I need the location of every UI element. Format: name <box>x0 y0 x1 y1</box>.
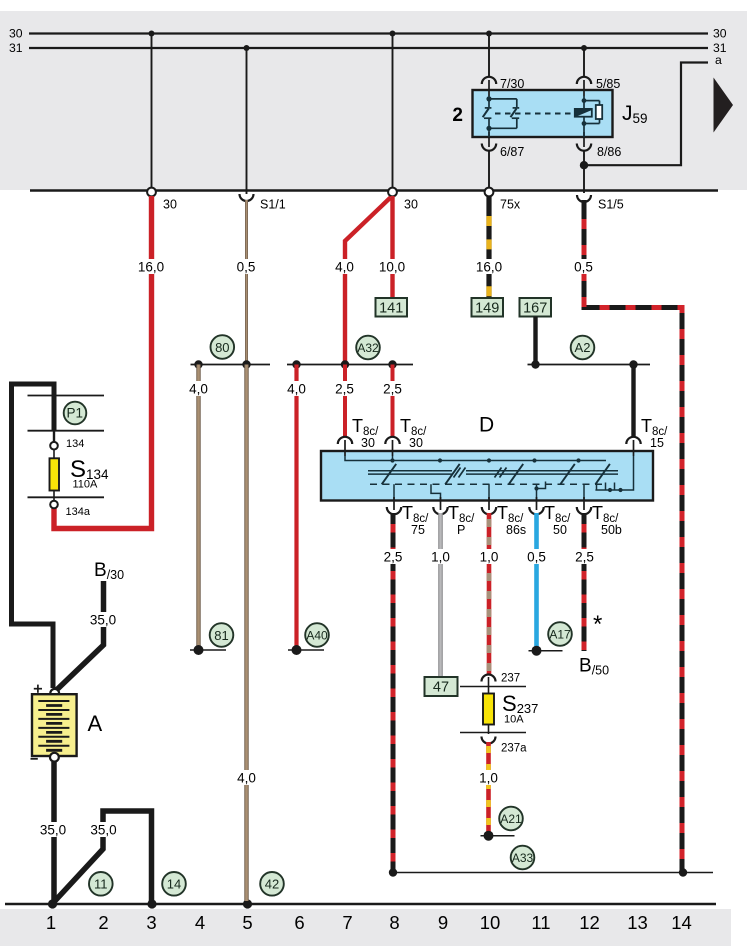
P1 bracket line upper <box>28 395 105 397</box>
svg-text:P: P <box>457 523 465 537</box>
terminal 134 <box>50 442 58 450</box>
wire net a <box>584 63 708 166</box>
svg-text:A17: A17 <box>549 628 571 642</box>
value label 1,0 (P wire) <box>429 549 452 564</box>
ground point 3 <box>147 899 156 908</box>
svg-text:4,0: 4,0 <box>237 771 256 786</box>
wire 8/86 down to terminal S1/5 <box>583 151 585 194</box>
top gray band <box>0 11 747 190</box>
svg-text:47: 47 <box>433 680 449 696</box>
fuse S237 <box>483 694 494 725</box>
wire stub column 5 to bus 31 <box>246 48 248 194</box>
svg-text:16,0: 16,0 <box>476 260 502 275</box>
pin T8c/30 connector (left) <box>338 437 352 444</box>
bus A33 <box>392 872 713 874</box>
svg-text:*: * <box>593 611 602 638</box>
svg-text:1,0: 1,0 <box>431 550 450 565</box>
wire stub column 8 to bus 30 <box>392 34 394 189</box>
svg-text:1: 1 <box>46 912 56 933</box>
value label 4,0 (A32 feed) <box>333 259 356 274</box>
wire black 35,0 ground 1 to ground 3 <box>53 811 152 903</box>
svg-text:11: 11 <box>94 876 108 891</box>
svg-text:2: 2 <box>452 105 463 126</box>
label 11 <box>89 872 113 896</box>
value label 2,5 (right) <box>381 381 404 396</box>
svg-text:31: 31 <box>9 41 23 55</box>
direction arrow <box>714 78 734 133</box>
pin 8/86 connector <box>577 144 591 151</box>
wire red 2,5 bus A32 to T8c/30 (left) <box>343 365 347 438</box>
terminal 134a <box>50 501 58 509</box>
svg-text:2,5: 2,5 <box>384 550 403 565</box>
label A40 <box>305 623 329 647</box>
wire blue 0,5 T8c/50 to connector A17 <box>534 513 539 649</box>
svg-text:P1: P1 <box>67 406 84 421</box>
svg-text:75x: 75x <box>500 198 521 212</box>
svg-text:0,5: 0,5 <box>527 550 546 565</box>
svg-text:16,0: 16,0 <box>138 260 164 275</box>
wire 6/87 down to terminal 75x <box>488 151 490 189</box>
svg-text:167: 167 <box>523 301 547 317</box>
label 81 <box>210 623 234 647</box>
svg-text:7: 7 <box>342 912 352 933</box>
value label 2,5 (50b wire) <box>573 549 596 564</box>
terminal 30 (column 8) <box>388 188 397 197</box>
terminal 237a <box>482 737 496 744</box>
svg-text:86s: 86s <box>506 523 526 537</box>
svg-text:80: 80 <box>215 340 229 355</box>
svg-text:13: 13 <box>627 912 648 933</box>
svg-text:35,0: 35,0 <box>40 823 66 838</box>
label P1 <box>64 402 87 425</box>
value label 1,0 (237a wire) <box>477 770 500 785</box>
wire red/yellow 1,0 237a to connector A21 <box>486 742 491 834</box>
svg-text:A40: A40 <box>306 629 328 643</box>
svg-text:8/86: 8/86 <box>597 145 621 159</box>
terminal 30 (column 3) <box>147 188 156 197</box>
svg-text:30: 30 <box>404 198 418 212</box>
pin T8c/86s connector <box>482 507 496 514</box>
label 14 <box>162 872 186 896</box>
wire black/yellow 16,0 terminal 75x to 149 <box>486 196 491 298</box>
wire black bus A2 to T8c/15 <box>631 365 635 438</box>
svg-text:A32: A32 <box>357 341 379 355</box>
value label 0,5 (50 wire) <box>525 549 548 564</box>
svg-text:30: 30 <box>163 198 177 212</box>
wire brown 0,5 S1/1 to bus 80 <box>245 200 248 365</box>
label A17 <box>548 622 572 646</box>
svg-text:75: 75 <box>411 523 425 537</box>
pin T8c/75 connector <box>387 507 401 514</box>
wire black 35,0 B/30 to battery plus <box>57 581 104 690</box>
connector bar A40 <box>288 649 324 651</box>
wire black battery plus to fuse S134 top <box>12 384 55 688</box>
svg-text:81: 81 <box>214 628 228 643</box>
label A2 <box>571 336 595 360</box>
value label 35,0 (B/30 wire) <box>89 612 118 627</box>
svg-text:237: 237 <box>501 673 520 685</box>
value label 35,0 (ground strap) <box>89 822 118 837</box>
svg-text:15: 15 <box>650 436 664 450</box>
svg-text:134: 134 <box>66 438 84 450</box>
ignition switch D body <box>321 451 653 501</box>
svg-text:10A: 10A <box>504 714 524 726</box>
svg-text:10: 10 <box>480 912 501 933</box>
battery A <box>32 694 77 756</box>
ground point 1 <box>48 899 57 908</box>
battery minus terminal <box>50 753 59 762</box>
value label 2,5 <box>333 381 356 396</box>
junction dot column 8 on bus 30 <box>390 31 396 37</box>
svg-text:S1/1: S1/1 <box>260 198 286 212</box>
svg-text:7/30: 7/30 <box>500 77 524 91</box>
svg-text:A: A <box>88 711 103 736</box>
ground point 5 <box>243 899 252 908</box>
value label 0,5 (S1/5 wire) <box>572 259 595 274</box>
relay coil <box>584 96 602 137</box>
bus line 30 <box>29 32 708 34</box>
bus line 31 <box>29 47 708 49</box>
svg-text:6: 6 <box>294 912 304 933</box>
pin T8c/30 connector (right) <box>385 437 399 444</box>
fuse bracket line lower <box>460 732 526 734</box>
svg-text:30: 30 <box>361 436 375 450</box>
value label 16,0 (75x wire) <box>475 259 503 274</box>
fuse S134 <box>53 450 55 500</box>
svg-text:0,5: 0,5 <box>237 260 256 275</box>
fuse bracket line upper <box>460 686 526 688</box>
svg-text:30: 30 <box>713 27 727 41</box>
wire black/red 2,5 T8c/50b to B/50 <box>582 513 587 651</box>
svg-text:10,0: 10,0 <box>379 260 405 275</box>
wire stub 7/30 to bus 30 <box>488 34 490 77</box>
relay J59 body <box>473 90 613 137</box>
mechanical linkage (dashed) <box>495 113 574 115</box>
bus A2 <box>528 364 651 366</box>
pin T8c/15 connector <box>626 437 640 444</box>
wire red/gray 1,0 T8c/86s to terminal 237 <box>487 513 492 674</box>
svg-text:134a: 134a <box>66 506 91 518</box>
label A21 <box>499 807 523 831</box>
svg-text:5: 5 <box>242 912 252 933</box>
wire red 2,5 bus A32 to T8c/30 (right) <box>391 365 395 438</box>
junction dot 7/30 on bus 30 <box>486 31 492 37</box>
bus 80 <box>191 364 271 366</box>
svg-text:A33: A33 <box>512 851 534 865</box>
value label 2,5 (75 wire) <box>382 549 405 564</box>
svg-text:D: D <box>479 414 494 437</box>
svg-text:50: 50 <box>553 523 567 537</box>
connector bar A21 <box>481 835 515 837</box>
svg-text:A21: A21 <box>500 812 522 826</box>
svg-text:0,5: 0,5 <box>574 260 593 275</box>
wire red 16,0 from terminal 30 to fuse S134 <box>54 196 152 529</box>
pin 5/85 connector <box>577 77 591 84</box>
pin 7/30 connector <box>482 77 496 84</box>
svg-text:30: 30 <box>409 436 423 450</box>
pin T8c/P connector <box>433 507 447 514</box>
battery plus terminal <box>50 689 59 698</box>
pin T8c/50b connector <box>577 507 591 514</box>
svg-text:14: 14 <box>167 876 181 891</box>
svg-text:9: 9 <box>438 912 448 933</box>
svg-text:50b: 50b <box>601 523 622 537</box>
svg-text:110A: 110A <box>73 479 99 491</box>
relay contact (left) <box>483 96 520 137</box>
svg-text:2,5: 2,5 <box>335 382 354 397</box>
wire red 4,0 terminal 30 to bus A32 <box>345 198 391 365</box>
pin T8c/50 connector <box>529 507 543 514</box>
wire black/red 0,5 S1/5 down right side <box>584 200 682 870</box>
value label 1,0 (86s wire) <box>478 549 501 564</box>
terminal 75x <box>485 188 494 197</box>
svg-text:5/85: 5/85 <box>596 77 620 91</box>
value label 16,0 <box>137 259 165 274</box>
svg-text:30: 30 <box>9 27 23 41</box>
svg-text:4: 4 <box>195 912 205 933</box>
bus A32 <box>287 364 413 366</box>
svg-text:11: 11 <box>531 912 550 933</box>
wire black/red 2,5 T8c/75 to bus A33 <box>391 513 396 870</box>
wire stub 5/85 to bus 31 <box>583 48 585 76</box>
wire stub column 3 to bus 30 <box>151 34 153 189</box>
terminal S1/1 <box>240 194 254 201</box>
svg-text:141: 141 <box>379 301 403 317</box>
terminal 237 <box>482 675 496 682</box>
svg-text:3: 3 <box>146 912 156 933</box>
value label 35,0 (battery minus wire) <box>39 822 68 837</box>
connector bar A17 <box>529 650 563 652</box>
junction dot 5/85 on bus 31 <box>581 45 587 51</box>
svg-text:12: 12 <box>579 912 600 933</box>
switch interior <box>345 456 634 501</box>
svg-text:149: 149 <box>475 301 499 317</box>
label 42 <box>260 872 284 896</box>
connector bar 81 <box>190 649 226 651</box>
wire black 167 to bus A2 <box>533 317 537 365</box>
wire red 4,0 bus A32 to connector A40 <box>294 365 298 649</box>
value label 4,0 <box>187 381 210 396</box>
svg-text:A2: A2 <box>575 340 591 355</box>
fuse bracket line <box>28 496 105 498</box>
P1 bracket line lower <box>28 430 105 432</box>
junction dot column 3 on bus 30 <box>149 31 155 37</box>
top band bottom border <box>30 189 718 192</box>
wire black 35,0 battery minus to ground 1 <box>51 762 57 901</box>
junction on wire a at 8/86 <box>580 161 588 169</box>
component 141 <box>376 298 408 317</box>
wire brown 4,0 bus 80 to connector 81 <box>196 365 200 649</box>
terminal S1/5 <box>577 195 591 202</box>
svg-text:2: 2 <box>98 912 108 933</box>
svg-text:4,0: 4,0 <box>189 382 208 397</box>
svg-text:14: 14 <box>671 912 692 933</box>
label A33 <box>511 846 535 870</box>
svg-text:2,5: 2,5 <box>575 550 594 565</box>
pin 6/87 connector <box>482 144 496 151</box>
svg-text:6/87: 6/87 <box>500 145 524 159</box>
wire brown 4,0 bus 80 to ground 5 <box>244 365 248 902</box>
junction dot column 5 on bus 31 <box>244 45 250 51</box>
wire red 10,0 terminal 30 to 141 <box>390 196 394 298</box>
svg-text:237a: 237a <box>501 743 527 755</box>
svg-text:4,0: 4,0 <box>335 260 354 275</box>
ground line <box>5 903 716 906</box>
svg-text:35,0: 35,0 <box>90 613 116 628</box>
svg-text:2,5: 2,5 <box>383 382 402 397</box>
svg-text:S1/5: S1/5 <box>598 198 624 212</box>
label A32 <box>356 336 380 360</box>
value label 0,5 (S1/1 wire) <box>235 259 258 274</box>
component 47 <box>425 677 458 696</box>
svg-text:a: a <box>715 53 722 67</box>
value label 4,0 (A40 wire) <box>285 381 308 396</box>
svg-text:42: 42 <box>265 876 279 891</box>
svg-text:1,0: 1,0 <box>480 550 499 565</box>
svg-text:1,0: 1,0 <box>479 771 498 786</box>
component 167 <box>520 298 552 317</box>
value label 4,0 (ground 5 wire) <box>235 770 258 785</box>
label 80 <box>211 335 235 359</box>
component 149 <box>472 298 504 317</box>
svg-text:8: 8 <box>389 912 399 933</box>
wire gray 1,0 T8c/P to 47 <box>438 513 443 677</box>
value label 10,0 <box>378 259 407 274</box>
svg-text:35,0: 35,0 <box>90 823 116 838</box>
bottom gray band <box>0 909 731 946</box>
svg-text:4,0: 4,0 <box>287 382 306 397</box>
